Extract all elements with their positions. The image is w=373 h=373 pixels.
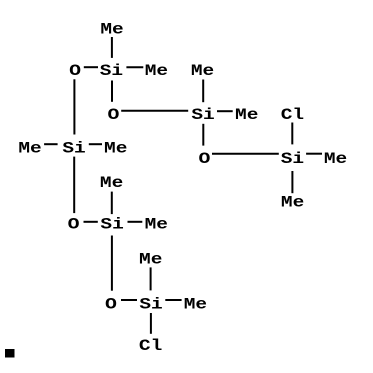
wire bond Me1-Si1 [111,37,113,58]
wire bond O1-Si1 [84,66,98,68]
wire bond Si5-Me10 [128,221,143,223]
wire bond Si2-O3 [202,124,204,146]
svg-text:Me: Me [235,107,258,124]
svg-text:Me: Me [145,216,168,233]
svg-text:Si: Si [100,63,123,80]
wire bond Si6-Me12 [165,299,181,301]
svg-text:Me: Me [139,251,162,268]
wire bond Si1-Me2 [126,66,143,68]
svg-text:Si: Si [62,140,85,157]
svg-text:Me: Me [324,151,347,168]
wire bond Si3-Me6 [291,171,293,193]
svg-text:Si: Si [281,151,304,168]
wire bond Si2-Me4 [217,110,233,112]
svg-text:Cl: Cl [139,338,162,355]
svg-text:Me: Me [100,175,123,192]
svg-text:Si: Si [191,107,214,124]
svg-text:O: O [108,107,120,124]
wire bond Si3-Me5 [306,153,322,155]
svg-text:O: O [68,217,80,234]
svg-text:Me: Me [104,140,127,157]
svg-text:Me: Me [191,63,214,80]
svg-text:Si: Si [100,216,123,233]
wire bond O1-Si4 (long vertical) [73,79,75,134]
wire bond Si4-Me8 [89,143,102,145]
wire bond Si1-O2 [111,81,113,102]
wire bond O4-Si5 [84,221,98,223]
svg-text:Me: Me [18,140,41,157]
wire bond Si6-Cl2 [150,313,152,334]
wire bond O5-Si6 [121,299,137,301]
wire bond Si5-O5 (long vertical) [111,236,113,291]
svg-text:Me: Me [281,194,304,211]
svg-text:Si: Si [139,296,162,313]
wire bond Me7-Si4 [44,143,58,145]
wire bond O2-Si2 (long horizontal) [121,110,188,112]
wire bond Me9-Si5 [111,192,113,215]
small square logo mark (bottom-left corner) [5,349,15,358]
wire bond Si4-O4 (long vertical) [73,157,75,214]
wire bond O3-Si3 (long horizontal) [212,153,279,155]
svg-text:Me: Me [184,296,207,313]
svg-text:O: O [69,63,81,80]
svg-text:Me: Me [100,21,123,38]
wire bond Me3-Si2 [202,80,204,103]
svg-text:O: O [198,151,210,168]
svg-text:Cl: Cl [281,107,304,124]
svg-text:O: O [105,297,117,314]
wire bond Me11-Si6 [150,267,152,290]
wire bond Cl1-Si3 [291,123,293,145]
svg-text:Me: Me [145,63,168,80]
